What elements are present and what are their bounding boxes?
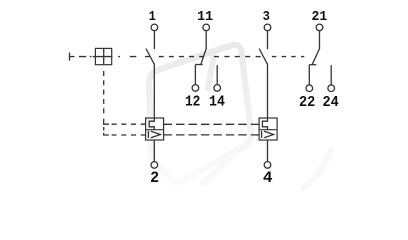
wire: release box 1 to terminal 2 bbox=[153, 140, 155, 161]
wire: terminal 1 to main contact bbox=[153, 31, 155, 49]
wire: terminal 22 lead bbox=[308, 65, 310, 85]
trip linkage upper dashed line box1 to box2 bbox=[164, 123, 260, 125]
magnetic release I bar pole 1 bbox=[147, 131, 149, 138]
thermal release heater jog pole 2 bbox=[262, 118, 267, 130]
mechanical linkage dashed line pole 1 to contact 11 bbox=[159, 56, 204, 58]
wire: solid linkage through actuator box bbox=[93, 56, 113, 58]
svg-text:14: 14 bbox=[209, 95, 225, 111]
wire: terminal 3 to main contact bbox=[267, 31, 269, 49]
svg-text:12: 12 bbox=[185, 95, 201, 111]
mechanical linkage dashed line contact 11 to pole 2 bbox=[214, 56, 264, 58]
svg-text:11: 11 bbox=[197, 9, 213, 25]
actuator box cross vertical bbox=[103, 48, 105, 64]
magnetic release greater-than pole 2 bbox=[264, 131, 274, 138]
mechanical linkage tick (left end) bbox=[70, 53, 75, 61]
trip linkage corner to upper branch bbox=[104, 119, 109, 125]
svg-text:4: 4 bbox=[263, 169, 273, 187]
svg-text:2: 2 bbox=[150, 169, 159, 187]
thermal release heater jog pole 1 bbox=[149, 118, 154, 130]
actuator (manual operating mechanism) box bbox=[95, 48, 111, 64]
thermal overload release box 2 bbox=[259, 118, 277, 140]
main contact pole 1 blade bbox=[146, 49, 154, 64]
main contact pole 2 blade bbox=[259, 49, 267, 64]
terminal circle 22 bbox=[306, 85, 313, 92]
mechanical linkage dash-dot line segment actuator to pole 1 bbox=[118, 56, 149, 58]
wire: terminal 21 to changeover contact bbox=[319, 31, 321, 48]
svg-text:24: 24 bbox=[322, 95, 339, 111]
wire: main contact to release box 1 bbox=[153, 63, 155, 118]
wire: terminal 14 lead bbox=[216, 65, 218, 84]
wire: terminal 11 to changeover contact bbox=[205, 31, 207, 48]
terminal circle 1 bbox=[151, 24, 158, 31]
svg-text:22: 22 bbox=[299, 95, 315, 111]
trip linkage vertical dash between corners bbox=[103, 127, 105, 131]
svg-text:1: 1 bbox=[149, 9, 156, 25]
wire: terminal 24 lead bbox=[330, 65, 332, 84]
trip linkage vertical dashed line bbox=[103, 71, 105, 117]
svg-text:3: 3 bbox=[263, 9, 270, 25]
terminal circle 14 bbox=[214, 85, 221, 92]
release box 2 divider bbox=[259, 129, 277, 131]
terminal circle 11 bbox=[203, 24, 210, 31]
auxiliary changeover blade 11 bbox=[201, 49, 206, 65]
terminal circle 21 bbox=[316, 24, 323, 31]
terminal circle 24 bbox=[328, 85, 335, 92]
auxiliary changeover blade 21 bbox=[312, 49, 319, 65]
mechanical linkage dash-dot line segment tick to actuator bbox=[79, 56, 91, 58]
terminal circle 3 bbox=[264, 24, 271, 31]
trip linkage corner to lower branch bbox=[104, 133, 109, 135]
wire: terminal 12 lead bbox=[194, 65, 196, 85]
terminal circle 4 bbox=[264, 162, 271, 169]
wire: release box 2 to terminal 4 bbox=[267, 140, 269, 161]
magnetic release I bar pole 2 bbox=[261, 131, 263, 138]
release box 1 divider bbox=[146, 129, 164, 131]
terminal circle 12 bbox=[192, 85, 199, 92]
thermal overload release box 1 bbox=[146, 118, 164, 140]
trip linkage upper dashed branch to release box 1 bbox=[112, 123, 146, 125]
svg-text:21: 21 bbox=[312, 9, 328, 25]
NC contact angle tick terminal 12 bbox=[195, 64, 202, 66]
terminal circle 2 bbox=[151, 162, 158, 169]
magnetic release greater-than pole 1 bbox=[151, 131, 161, 138]
wire: main contact to release box 2 bbox=[267, 63, 269, 118]
trip linkage lower dashed branch to release box 1 bbox=[112, 134, 146, 136]
trip linkage lower dashed line box1 to box2 bbox=[164, 134, 260, 136]
NC contact angle tick terminal 22 bbox=[309, 64, 316, 66]
mechanical linkage dashed line pole 2 to contact 21 bbox=[272, 56, 304, 58]
